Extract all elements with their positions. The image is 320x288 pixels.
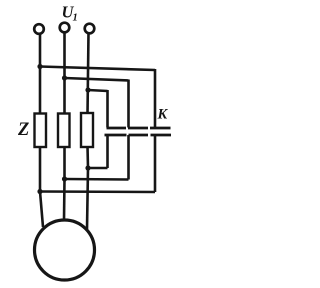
wire loop B vertical [127, 80, 130, 128]
terminal 1 [34, 24, 44, 34]
wire phase 3 lower [86, 147, 89, 169]
label Z [17, 120, 29, 140]
resistor Z3 [81, 113, 93, 147]
motor M [35, 220, 95, 280]
node phase3-contact junction [85, 165, 90, 170]
node phase1-contact junction [37, 189, 42, 194]
wire phase 2 upper [63, 32, 66, 114]
svg-text:K: K [157, 107, 169, 123]
contact K3 [150, 128, 171, 192]
wire B1 horizontal [40, 190, 155, 193]
wire phase 3 upper [88, 33, 89, 114]
terminal 3 [85, 24, 95, 34]
node phase2-loop junction [62, 75, 67, 80]
label K [157, 107, 169, 123]
node phase3-loop junction [85, 87, 90, 92]
contact K1 [105, 128, 127, 168]
wire loop B horizontal [65, 78, 129, 81]
wire phase 1 to motor [40, 192, 43, 228]
wire B3 horizontal [88, 167, 108, 170]
contact K2 [128, 128, 148, 180]
terminal 2 [60, 23, 70, 33]
wire B2 horizontal [65, 178, 129, 181]
node phase1-loop junction [37, 64, 42, 69]
node phase2-contact junction [62, 176, 67, 181]
wire loop A vertical [154, 69, 157, 128]
wire loop C vertical [106, 90, 109, 128]
wire loop C horizontal [88, 90, 108, 91]
wire phase 1 lower [39, 147, 42, 192]
svg-text:Z: Z [17, 120, 29, 140]
wire phase 2 lower [63, 147, 66, 180]
wire phase 3 to motor [87, 168, 88, 229]
label U1 [62, 3, 78, 24]
wire phase 2 to motor [63, 179, 66, 220]
wire phase 1 upper [39, 34, 42, 115]
svg-text:1: 1 [73, 13, 78, 24]
resistor Z1 [35, 114, 47, 148]
wire loop A horizontal [40, 67, 155, 71]
resistor Z2 [58, 114, 70, 148]
